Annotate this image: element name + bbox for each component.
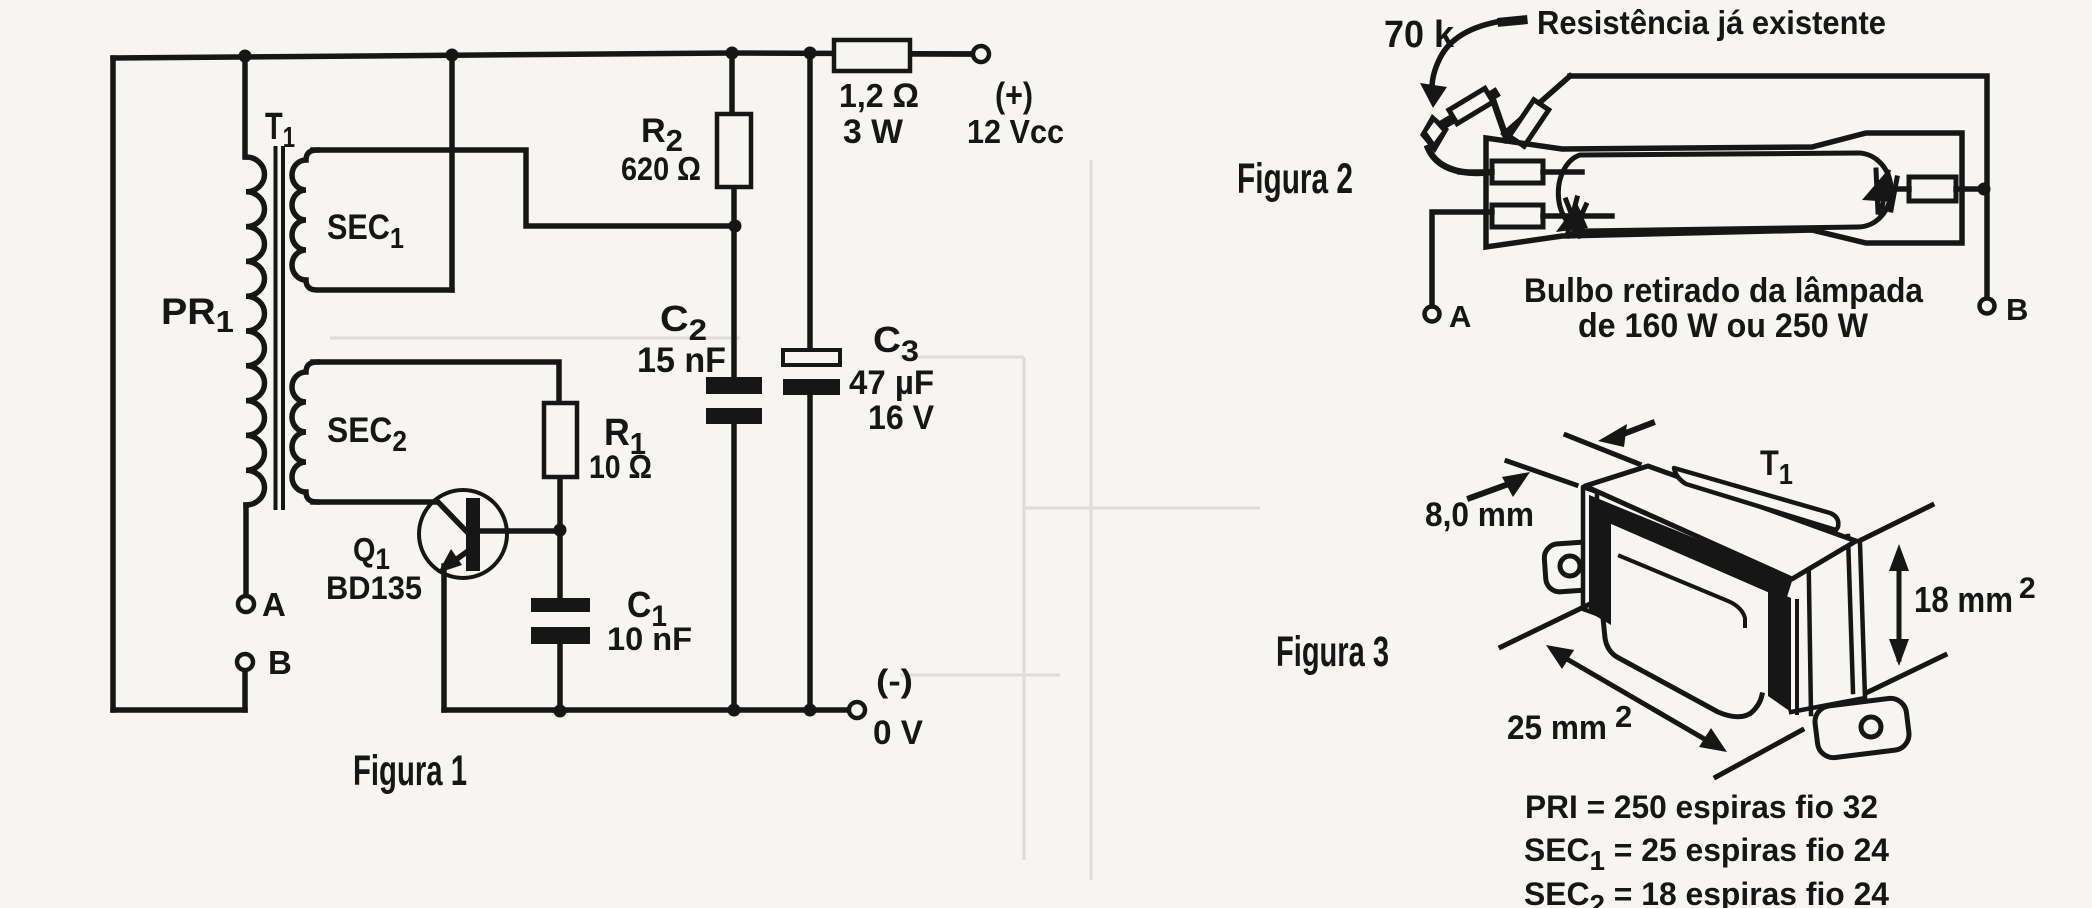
dimension 8mm arrows bbox=[1618, 423, 1652, 436]
svg-text:B: B bbox=[2006, 292, 2028, 327]
dimension 25mm leader lines bbox=[1501, 603, 1802, 777]
svg-text:Figura 2: Figura 2 bbox=[1237, 155, 1353, 203]
wire PR1 top lead bbox=[242, 56, 248, 157]
lamp resistor lower edge to junction bbox=[1492, 97, 1507, 140]
wire diagonal lead to resistor assembly bbox=[1504, 76, 1570, 134]
junction: top rail to R2 bbox=[726, 47, 739, 60]
svg-text:12 Vcc: 12 Vcc bbox=[967, 113, 1064, 150]
left electrode scribble bbox=[1566, 198, 1586, 236]
junction: top rail to SEC1 bbox=[446, 49, 459, 62]
svg-text:B: B bbox=[268, 644, 292, 681]
bulb electrode holder upper bbox=[1492, 161, 1543, 183]
svg-text:2: 2 bbox=[2019, 572, 2036, 605]
transformer drawing top hump bbox=[1674, 468, 1838, 530]
svg-text:Resistência já existente: Resistência já existente bbox=[1537, 4, 1886, 41]
transistor Q1 base bar bbox=[466, 498, 480, 571]
FIGURE 2 bbox=[1420, 20, 1995, 322]
wire R2 top lead bbox=[729, 53, 735, 114]
svg-text:3 W: 3 W bbox=[843, 113, 904, 151]
wire SEC1 top with step to R2 node bbox=[313, 150, 731, 226]
capacitor C2 plates bbox=[706, 377, 762, 424]
transformer drawing lamination frame black bbox=[1589, 495, 1793, 712]
svg-text:SEC2: SEC2 bbox=[327, 411, 407, 458]
wire SEC2 top to R1 bbox=[313, 362, 559, 403]
lamp internal resistor 70k white holder left bbox=[1449, 88, 1493, 123]
wire left side bbox=[110, 58, 116, 710]
resistor R2 body bbox=[717, 114, 751, 187]
svg-text:de 160 W ou 250 W: de 160 W ou 250 W bbox=[1578, 307, 1869, 345]
svg-text:Figura 1: Figura 1 bbox=[353, 747, 467, 795]
transformer T1 secondary SEC2 coil bbox=[292, 362, 317, 502]
transformer drawing left mounting tab bbox=[1543, 541, 1598, 593]
lamp support kite bbox=[1420, 114, 1449, 153]
svg-text:16 V: 16 V bbox=[868, 399, 934, 437]
resistor R1 body bbox=[544, 403, 577, 477]
resistor 1,2 ohm body bbox=[834, 40, 910, 71]
wire base from SEC2 bbox=[313, 502, 468, 533]
svg-text:1,2 Ω: 1,2 Ω bbox=[839, 77, 919, 115]
svg-text:A: A bbox=[262, 586, 286, 623]
capacitor C3 plates bbox=[783, 350, 840, 365]
junction: top rail to C3 bbox=[804, 47, 817, 60]
bulb electrode holder lower bbox=[1492, 205, 1543, 227]
lamp existing resistor body right bbox=[1909, 177, 1956, 201]
wire C3 top lead bbox=[807, 53, 813, 350]
svg-text:PR1: PR1 bbox=[161, 291, 234, 339]
transformer drawing right side faces bbox=[1791, 520, 1865, 714]
wire C2 bottom lead bbox=[731, 424, 737, 710]
wire lamp top to B bbox=[1570, 76, 1987, 299]
transformer drawing shell front-left strip bbox=[1583, 487, 1597, 614]
svg-text:10 Ω: 10 Ω bbox=[589, 448, 652, 485]
transformer drawing bobbin inner line bbox=[1620, 556, 1745, 626]
lamp internal resistor 70k white holder right bbox=[1509, 100, 1549, 147]
svg-text:8,0 mm: 8,0 mm bbox=[1425, 496, 1534, 534]
dimension 8mm extension lines bbox=[1507, 435, 1639, 485]
svg-text:10 nF: 10 nF bbox=[607, 621, 692, 657]
svg-text:SEC1: SEC1 bbox=[327, 208, 404, 255]
lamp support arc bbox=[1428, 148, 1491, 173]
wire SEC1 bottom to top rail bbox=[449, 55, 455, 290]
capacitor C1 plates bbox=[531, 598, 590, 644]
svg-text:T1: T1 bbox=[1760, 444, 1793, 491]
svg-text:620 Ω: 620 Ω bbox=[621, 150, 701, 187]
dimension 18mm leader lines bbox=[1859, 505, 1945, 692]
transistor Q1 emitter with arrow bbox=[450, 551, 468, 564]
transformer drawing top face bbox=[1585, 466, 1856, 579]
curved arrow 70k bbox=[1432, 21, 1502, 88]
transformer drawing lamination edge line bbox=[1795, 601, 1799, 713]
svg-text:A: A bbox=[1449, 299, 1471, 334]
wire collector bbox=[480, 528, 558, 534]
transformer drawing right mounting tab bbox=[1813, 697, 1911, 760]
svg-text:18 mm: 18 mm bbox=[1914, 579, 2013, 620]
svg-text:T1: T1 bbox=[265, 106, 295, 154]
svg-text:(-): (-) bbox=[876, 663, 913, 699]
wire output plus bbox=[910, 51, 971, 57]
bulb envelope outline bbox=[1486, 133, 1962, 247]
terminal B fig2 bbox=[1980, 299, 1995, 314]
transformer T1 core bbox=[276, 148, 284, 508]
lamp internal resistor 70k thick bar bbox=[1444, 94, 1494, 124]
wire A lead bbox=[243, 505, 249, 596]
svg-text:Figura 3: Figura 3 bbox=[1276, 628, 1389, 676]
svg-text:SEC1 = 25 espiras fio 24: SEC1 = 25 espiras fio 24 bbox=[1524, 832, 1889, 876]
wire B lead bbox=[242, 671, 248, 710]
transformer T1 primary PR1 coil bbox=[246, 157, 265, 505]
junction: C2 to bottom rail bbox=[728, 704, 741, 717]
svg-text:C3: C3 bbox=[873, 319, 919, 368]
wire terminal A bbox=[1432, 212, 1492, 306]
svg-text:70 k: 70 k bbox=[1384, 14, 1455, 56]
junction: R2 bottom to SEC1 wire and C2 bbox=[729, 220, 742, 233]
dimension 25mm arrow bbox=[1560, 655, 1713, 744]
terminal (-) 0V bbox=[849, 702, 865, 718]
right electrode scribble bbox=[1876, 170, 1897, 214]
svg-text:C2: C2 bbox=[660, 298, 707, 347]
svg-text:0 V: 0 V bbox=[873, 714, 923, 752]
svg-text:Bulbo retirado da lâmpada: Bulbo retirado da lâmpada bbox=[1524, 272, 1924, 310]
electrode holder leads bbox=[1460, 172, 1612, 216]
svg-text:SEC2 = 18 espiras fio 24: SEC2 = 18 espiras fio 24 bbox=[1524, 876, 1889, 908]
wire bottom rail to 0V bbox=[444, 707, 847, 713]
terminal (+) 12Vcc bbox=[973, 46, 989, 62]
transformer drawing bobbin front outline bbox=[1602, 608, 1762, 717]
FIGURE 3 bbox=[1470, 423, 1945, 777]
svg-text:2: 2 bbox=[1615, 699, 1632, 734]
wire emitter to bottom rail bbox=[441, 566, 447, 710]
wire bottom left bbox=[113, 707, 245, 713]
terminal A bbox=[238, 596, 254, 612]
junction: top rail to PR1 bbox=[239, 50, 252, 63]
wire C3 bottom lead bbox=[807, 395, 813, 710]
junction dot at B wire bbox=[1978, 183, 1991, 196]
terminal B bbox=[237, 654, 253, 670]
dimension 18mm arrow bbox=[1897, 553, 1902, 659]
leader line to label bbox=[1502, 20, 1523, 22]
svg-text:PRI = 250 espiras fio 32: PRI = 250 espiras fio 32 bbox=[1525, 789, 1878, 825]
svg-text:BD135: BD135 bbox=[326, 570, 422, 606]
junction: C3 to bottom rail bbox=[804, 704, 817, 717]
bulb inner tube bbox=[1558, 153, 1891, 231]
wire R2 bottom lead to C2 bbox=[731, 188, 737, 377]
svg-text:47 µF: 47 µF bbox=[849, 364, 934, 402]
junction: C1 to bottom rail bbox=[554, 705, 567, 718]
wire top rail bbox=[113, 53, 973, 58]
lamp existing resistor leads bbox=[1898, 186, 1983, 192]
transformer T1 secondary SEC1 coil bbox=[292, 150, 452, 290]
junction: collector to R1 and C1 bbox=[554, 524, 567, 537]
transistor Q1 circle bbox=[419, 490, 507, 578]
wire C1 bottom lead bbox=[557, 645, 563, 711]
svg-text:25 mm: 25 mm bbox=[1507, 709, 1607, 747]
terminal A fig2 bbox=[1425, 307, 1440, 322]
wire R1 bottom lead bbox=[557, 477, 563, 598]
svg-text:(+): (+) bbox=[995, 76, 1033, 115]
svg-text:15 nF: 15 nF bbox=[637, 341, 726, 380]
